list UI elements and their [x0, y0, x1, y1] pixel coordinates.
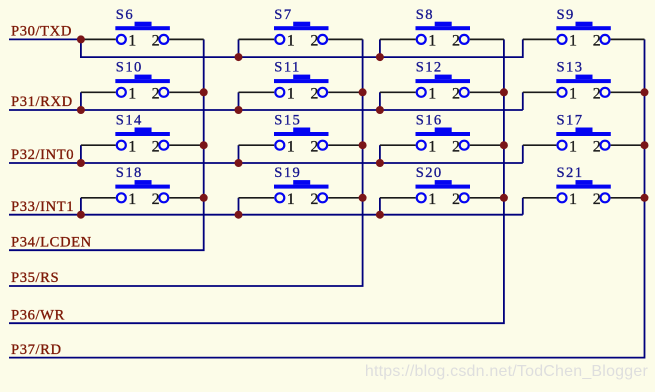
pin 2 of S12 (black lead and number) — [452, 86, 504, 103]
svg-text:S11: S11 — [274, 60, 300, 76]
junction on column 4 vertical at S17 pin 2 — [641, 141, 649, 149]
junction on P32/INT0 at left stub — [77, 159, 85, 167]
wire P33/INT1 from left edge to junction — [9, 214, 81, 216]
wire stub from P31/RXD net up to S12 pin 1 — [379, 92, 381, 110]
svg-text:S13: S13 — [557, 60, 584, 76]
junction on column 3 vertical at S12 pin 2 — [500, 88, 508, 96]
svg-text:1: 1 — [128, 139, 136, 156]
svg-text:1: 1 — [569, 33, 577, 50]
push-button switch S10 — [115, 75, 170, 97]
pin 2 of S17 (black lead and number) — [593, 139, 645, 156]
pin 2 of S6 (black lead and number) — [152, 33, 204, 50]
wire stub from P31/RXD net up to S11 pin 1 — [238, 92, 240, 110]
pin 1 of S17 (black lead and number) — [523, 139, 577, 156]
wire P36/WR column feed, runs right then up column 3 vertical — [9, 39, 504, 323]
wire stub up from P31/RXD junction to S10 pin 1 level — [80, 92, 82, 110]
pin 1 of S6 (black lead and number) — [81, 33, 136, 50]
wire P37/RD column feed, runs right then up column 4 vertical — [9, 39, 645, 357]
pin 1 of S19 (black lead and number) — [239, 191, 295, 208]
svg-text:1: 1 — [287, 191, 295, 208]
svg-text:P35/RS: P35/RS — [11, 270, 59, 286]
svg-text:2: 2 — [310, 33, 318, 50]
watermark blog url — [0, 363, 648, 381]
wire stub from P33/INT1 net up to S20 pin 1 — [379, 198, 381, 215]
svg-text:2: 2 — [452, 139, 460, 156]
push-button switch S17 — [556, 128, 611, 150]
svg-text:S19: S19 — [274, 165, 301, 181]
pin 2 of S11 (black lead and number) — [310, 86, 362, 103]
junction on P33/INT1 net at S19 stub — [235, 211, 243, 219]
svg-text:2: 2 — [593, 139, 601, 156]
svg-text:1: 1 — [287, 86, 295, 103]
pin 1 of S15 (black lead and number) — [239, 139, 295, 156]
junction on P31/RXD net at S11 stub — [235, 106, 243, 114]
push-button switch S6 — [115, 22, 170, 44]
svg-text:1: 1 — [428, 33, 436, 50]
wire P30/TXD from left edge to junction — [9, 38, 81, 40]
svg-text:P36/WR: P36/WR — [11, 307, 65, 323]
pin 2 of S19 (black lead and number) — [310, 191, 362, 208]
pin 2 of S20 (black lead and number) — [452, 191, 504, 208]
junction on column 3 vertical at S20 pin 2 — [500, 194, 508, 202]
push-button switch S16 — [416, 128, 471, 150]
pin 2 of S14 (black lead and number) — [152, 139, 204, 156]
push-button switch S7 — [274, 22, 329, 44]
svg-text:P33/INT1: P33/INT1 — [11, 199, 74, 215]
junction on P30/TXD net at S8 stub — [376, 53, 384, 61]
push-button switch S12 — [416, 75, 471, 97]
junction on P31/RXD net at S12 stub — [376, 106, 384, 114]
junction on column 1 vertical at S14 pin 2 — [200, 141, 208, 149]
svg-text:2: 2 — [152, 191, 160, 208]
wire stub from P30/TXD net up to S8 pin 1 — [379, 39, 381, 57]
svg-text:1: 1 — [428, 191, 436, 208]
svg-text:1: 1 — [128, 86, 136, 103]
pin 1 of S7 (black lead and number) — [239, 33, 295, 50]
wire row net P33/INT1 horizontal — [81, 214, 523, 216]
junction on P33/INT1 at left stub — [77, 211, 85, 219]
push-button switch S21 — [556, 180, 611, 202]
push-button switch S18 — [115, 180, 170, 202]
svg-text:P30/TXD: P30/TXD — [11, 24, 72, 40]
wire stub up from P33/INT1 junction to S18 pin 1 level — [80, 198, 82, 215]
junction on column 1 vertical at S10 pin 2 — [200, 88, 208, 96]
push-button switch S14 — [115, 128, 170, 150]
pin 1 of S20 (black lead and number) — [380, 191, 436, 208]
svg-text:1: 1 — [128, 191, 136, 208]
push-button switch S9 — [556, 22, 611, 44]
junction on column 4 vertical at S21 pin 2 — [641, 194, 649, 202]
pin 2 of S16 (black lead and number) — [452, 139, 504, 156]
wire stub from P30/TXD net up to S7 pin 1 — [238, 39, 240, 57]
pin 1 of S11 (black lead and number) — [239, 86, 295, 103]
junction on column 2 vertical at S19 pin 2 — [359, 194, 367, 202]
pin 2 of S8 (black lead and number) — [452, 33, 504, 50]
pin 1 of S8 (black lead and number) — [380, 33, 436, 50]
svg-text:S17: S17 — [557, 113, 584, 129]
svg-text:2: 2 — [310, 139, 318, 156]
pin 1 of S10 (black lead and number) — [81, 86, 136, 103]
push-button switch S8 — [416, 22, 471, 44]
svg-text:2: 2 — [152, 86, 160, 103]
svg-text:2: 2 — [310, 86, 318, 103]
pin 1 of S9 (black lead and number) — [523, 33, 577, 50]
svg-text:2: 2 — [593, 86, 601, 103]
svg-text:2: 2 — [593, 191, 601, 208]
svg-text:S12: S12 — [416, 60, 443, 76]
wire row net P30/TXD: drop from junction then horizontal below row 1 — [81, 39, 523, 57]
wire stub from P33/INT1 net up to S19 pin 1 — [238, 198, 240, 215]
svg-text:S15: S15 — [274, 113, 301, 129]
junction on column 2 vertical at S11 pin 2 — [359, 88, 367, 96]
svg-text:S8: S8 — [416, 7, 434, 23]
wire stub up from P32/INT0 junction to S14 pin 1 level — [80, 145, 82, 163]
wire stub from P32/INT0 net up to S15 pin 1 — [238, 145, 240, 163]
svg-text:2: 2 — [452, 86, 460, 103]
svg-text:S10: S10 — [116, 60, 143, 76]
svg-text:2: 2 — [452, 191, 460, 208]
svg-text:S16: S16 — [416, 113, 443, 129]
junction on P33/INT1 net at S20 stub — [376, 211, 384, 219]
junction on column 3 vertical at S16 pin 2 — [500, 141, 508, 149]
wire row net P31/RXD horizontal — [81, 109, 523, 111]
wire stub up from P31/RXD net to S13 pin 1 level — [522, 92, 524, 110]
pin 1 of S21 (black lead and number) — [523, 191, 577, 208]
junction on P31/RXD at left stub — [77, 106, 85, 114]
svg-text:S18: S18 — [116, 165, 143, 181]
svg-text:S6: S6 — [116, 7, 134, 23]
svg-text:P32/INT0: P32/INT0 — [11, 147, 74, 163]
svg-text:1: 1 — [569, 139, 577, 156]
svg-text:2: 2 — [452, 33, 460, 50]
svg-text:S21: S21 — [557, 165, 584, 181]
wire stub up from P33/INT1 net to S21 pin 1 level — [522, 198, 524, 215]
pin 2 of S9 (black lead and number) — [593, 33, 645, 50]
svg-text:2: 2 — [152, 139, 160, 156]
pin 2 of S10 (black lead and number) — [152, 86, 204, 103]
junction on P32/INT0 net at S16 stub — [376, 159, 384, 167]
pin 2 of S7 (black lead and number) — [310, 33, 362, 50]
pin 1 of S14 (black lead and number) — [81, 139, 136, 156]
svg-text:S14: S14 — [116, 113, 143, 129]
svg-text:1: 1 — [428, 139, 436, 156]
junction on column 2 vertical at S15 pin 2 — [359, 141, 367, 149]
pin 1 of S16 (black lead and number) — [380, 139, 436, 156]
svg-text:P31/RXD: P31/RXD — [11, 94, 73, 110]
pin 1 of S13 (black lead and number) — [523, 86, 577, 103]
pin 1 of S12 (black lead and number) — [380, 86, 436, 103]
push-button switch S19 — [274, 180, 329, 202]
svg-text:1: 1 — [428, 86, 436, 103]
junction on P30/TXD net at S7 stub — [235, 53, 243, 61]
svg-text:S7: S7 — [274, 7, 292, 23]
push-button switch S11 — [274, 75, 329, 97]
pin 2 of S15 (black lead and number) — [310, 139, 362, 156]
svg-text:1: 1 — [569, 86, 577, 103]
push-button switch S13 — [556, 75, 611, 97]
pin 2 of S13 (black lead and number) — [593, 86, 645, 103]
junction on column 1 vertical at S18 pin 2 — [200, 194, 208, 202]
pin 2 of S21 (black lead and number) — [593, 191, 645, 208]
svg-text:S9: S9 — [557, 7, 575, 23]
wire row net P32/INT0 horizontal — [81, 162, 523, 164]
svg-text:1: 1 — [287, 139, 295, 156]
svg-text:P34/LCDEN: P34/LCDEN — [11, 234, 92, 250]
junction on P30/TXD at left stub — [77, 35, 85, 43]
junction on column 4 vertical at S13 pin 2 — [641, 88, 649, 96]
svg-text:2: 2 — [593, 33, 601, 50]
pin 2 of S18 (black lead and number) — [152, 191, 204, 208]
svg-text:1: 1 — [569, 191, 577, 208]
svg-text:1: 1 — [128, 33, 136, 50]
svg-text:P37/RD: P37/RD — [11, 342, 62, 358]
svg-text:1: 1 — [287, 33, 295, 50]
wire P34/LCDEN column feed, runs right then up column 1 vertical — [9, 39, 204, 250]
wire P31/RXD from left edge to junction — [9, 109, 81, 111]
wire stub from P32/INT0 net up to S16 pin 1 — [379, 145, 381, 163]
wire P32/INT0 from left edge to junction — [9, 162, 81, 164]
pin 1 of S18 (black lead and number) — [81, 191, 136, 208]
svg-text:2: 2 — [152, 33, 160, 50]
svg-text:2: 2 — [310, 191, 318, 208]
push-button switch S20 — [416, 180, 471, 202]
push-button switch S15 — [274, 128, 329, 150]
junction on P32/INT0 net at S15 stub — [235, 159, 243, 167]
wire stub up from P32/INT0 net to S17 pin 1 level — [522, 145, 524, 163]
svg-text:S20: S20 — [416, 165, 443, 181]
wire P35/RS column feed, runs right then up column 2 vertical — [9, 39, 363, 286]
